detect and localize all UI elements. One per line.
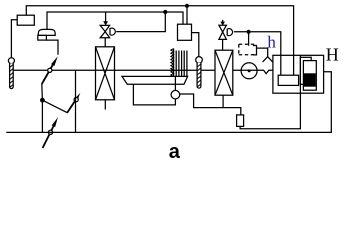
wire: bus 1 branch to relay box B2 xyxy=(186,6,188,24)
wire: bell to switch S1 contact xyxy=(46,40,58,55)
wire: signal bus 1 (top) xyxy=(26,6,293,75)
relay box B2 xyxy=(178,24,192,40)
wire: controller to electrode fork xyxy=(257,48,268,57)
svg-text:a: a xyxy=(169,141,181,163)
junction node on bus 1 xyxy=(185,4,189,8)
arrowhead onto valve V1 xyxy=(103,21,108,25)
level controller (dashed box) xyxy=(239,44,257,55)
valve V2 diaphragm actuator xyxy=(227,29,232,36)
wire: bus 2 to valve V1 actuator xyxy=(116,12,165,32)
svg-text:h: h xyxy=(267,32,276,51)
relay R1 xyxy=(17,15,34,25)
tank xyxy=(273,55,324,93)
pump P xyxy=(241,63,257,79)
wire: column K2 bottom stub xyxy=(222,95,224,107)
wire: valve V1 to column K1 xyxy=(104,38,106,47)
tray (bath) xyxy=(122,76,188,84)
main circuit wire xyxy=(13,70,272,73)
tray inside tank xyxy=(278,75,298,85)
level gauge xyxy=(300,57,316,90)
wire: valve V2 signal line to tank tray xyxy=(234,32,281,75)
switch S1 (arrow contact) xyxy=(42,56,58,84)
wire: junction to bottom bus xyxy=(41,100,43,132)
valve V1 diaphragm actuator xyxy=(110,28,115,35)
control valve V1 xyxy=(100,25,109,37)
junction node on valve V2 signal xyxy=(247,30,251,34)
heater comb elements xyxy=(176,51,187,77)
wire: motor to heater circuit xyxy=(180,94,241,115)
switch S2 (arrow contact) xyxy=(67,93,80,113)
heating element resistor xyxy=(237,115,244,127)
wire: resistor to tank dip tube xyxy=(240,55,300,129)
svg-text:H: H xyxy=(326,44,339,64)
wire: S1 tail to junction xyxy=(41,84,44,100)
wire: bottom bus to tank xyxy=(6,72,331,133)
control valve V2 xyxy=(219,25,227,39)
wire: stem above valve V2 xyxy=(222,20,224,22)
electrode fork xyxy=(263,57,273,62)
adsorber column K1 xyxy=(96,47,115,100)
wire: valve V2 to column K2 xyxy=(222,40,224,51)
temperature sensor T1 wire to relay R1 xyxy=(11,20,17,58)
wire: column K1 bottom stub xyxy=(104,100,106,110)
wire: stem above valve V1 xyxy=(105,12,107,22)
heater hatched electrode xyxy=(171,49,174,78)
junction node on bus 2 xyxy=(163,10,167,14)
temperature sensor T2 (contact thermometer) xyxy=(196,57,203,88)
wire: contact column from main wire to bottom bus xyxy=(75,70,77,132)
arrowhead onto valve V2 xyxy=(220,22,225,26)
wire: signal bus 2 xyxy=(47,12,183,30)
switch blade from junction xyxy=(42,100,67,112)
calorifer column K2 xyxy=(215,50,233,95)
frame under tray xyxy=(133,84,175,105)
temperature sensor T1 (contact thermometer) xyxy=(8,58,14,89)
wire: junction to level controller xyxy=(248,32,250,46)
switch S3 (arrow contact on bottom bus) xyxy=(43,117,58,148)
junction node xyxy=(40,98,45,103)
electric bell xyxy=(38,29,55,40)
wire: sensor T2 to relay box B2 xyxy=(192,33,199,57)
motor M xyxy=(171,76,180,99)
